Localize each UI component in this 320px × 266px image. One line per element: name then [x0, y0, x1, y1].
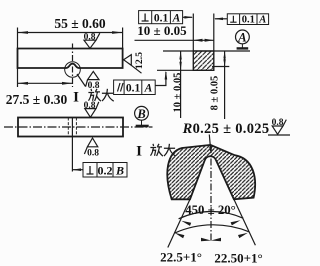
frame perpendicularity 0.2 B — [83, 163, 127, 178]
right vertical dim 8 — [224, 51, 226, 119]
roughness 12.5 right end — [124, 55, 142, 74]
dim 10 horizontal: line — [135, 39, 214, 41]
top surface line extended — [163, 50, 250, 52]
svg-text:22.5+1°: 22.5+1° — [160, 250, 202, 265]
detail hatched body — [167, 145, 255, 199]
dim 55: dimension line — [18, 32, 123, 34]
svg-text:A: A — [258, 15, 266, 26]
svg-text:0.1: 0.1 — [242, 15, 255, 26]
svg-text:10 ± 0.05: 10 ± 0.05 — [173, 73, 184, 113]
centerline horizontal — [4, 126, 153, 128]
hidden lines of notch — [68, 118, 76, 137]
22.5 arcs — [175, 225, 249, 233]
bottom surface line extended — [157, 69, 214, 71]
大 glyph (hand drawn) — [102, 89, 114, 101]
svg-text:27.5 ± 0.30: 27.5 ± 0.30 — [6, 92, 68, 107]
svg-text:0.8: 0.8 — [87, 149, 99, 159]
datum A symbol — [236, 30, 250, 44]
svg-text:I: I — [73, 90, 79, 106]
section square hatched — [193, 51, 214, 70]
dim 27.5: dimension line — [18, 82, 73, 84]
45 deg dim arc — [179, 211, 244, 218]
frame1 perp 0.1 A — [139, 11, 183, 24]
roughness 0.8 top of bar — [84, 33, 100, 48]
svg-text:I: I — [136, 144, 142, 160]
svg-text:8 ± 0.05: 8 ± 0.05 — [210, 76, 221, 111]
svg-text:55 ± 0.60: 55 ± 0.60 — [54, 16, 106, 31]
bar body (part outline) — [18, 49, 123, 69]
放 glyph (hand drawn) — [88, 89, 101, 101]
svg-text:0.8: 0.8 — [84, 32, 96, 42]
left vertical dim 10 — [180, 51, 182, 118]
roughness 0.8 above bar2 — [85, 102, 99, 117]
svg-text:0.8: 0.8 — [88, 81, 100, 91]
svg-text:12.5: 12.5 — [134, 52, 145, 69]
svg-text:R0.25 ± 0.025: R0.25 ± 0.025 — [182, 121, 270, 137]
leader to axis — [73, 169, 83, 171]
svg-text:A: A — [144, 82, 153, 94]
svg-text:22.50+1°: 22.50+1° — [214, 251, 262, 266]
frame3 leader — [155, 72, 166, 86]
dim 27.5: arrowheads — [18, 82, 29, 85]
notch bottom line — [212, 66, 229, 68]
notch center line down to frame — [71, 118, 73, 172]
leader + roughness 0.8 at notch flank — [77, 71, 99, 86]
extension lines above square — [193, 14, 214, 52]
roughness 0.8 below bar2 — [84, 138, 97, 154]
leader from R text to apex — [209, 135, 210, 150]
bar body — [18, 118, 123, 137]
frame2 perp 0.1 A — [227, 14, 268, 25]
svg-text:0.1: 0.1 — [126, 82, 141, 94]
svg-text:0.8: 0.8 — [272, 118, 284, 128]
centerline of notch — [72, 44, 74, 88]
svg-text:10 ± 0.05: 10 ± 0.05 — [137, 23, 187, 38]
dim 55: extension lines — [18, 28, 123, 49]
datum B symbol — [135, 106, 149, 120]
svg-text:B: B — [136, 107, 145, 121]
dim 27.5: extension line — [17, 68, 19, 87]
svg-text:0.2: 0.2 — [98, 164, 113, 178]
frame3 parallel 0.1 A — [114, 80, 156, 95]
svg-text:0.1: 0.1 — [154, 12, 169, 24]
svg-text:0.8: 0.8 — [84, 101, 96, 111]
svg-text:B: B — [115, 164, 124, 178]
dim 55: arrowheads — [18, 31, 29, 34]
flank extension lines — [168, 199, 256, 247]
svg-text:A: A — [172, 12, 181, 24]
roughness 0.8 at R — [272, 120, 286, 135]
centerline of detail — [210, 146, 212, 242]
svg-text:A: A — [237, 31, 246, 45]
svg-text:450 ± 20°: 450 ± 20° — [185, 203, 236, 217]
detail circle I — [65, 62, 81, 78]
